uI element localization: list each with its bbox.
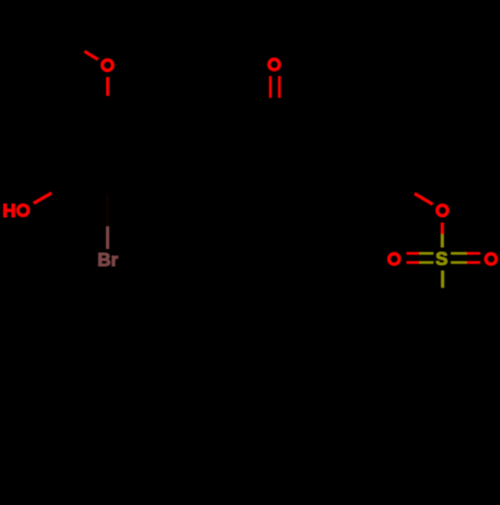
wire: O half of methoxy O-ring1 bond: [106, 77, 109, 96]
vinyl double bond inner line: [183, 124, 223, 146]
wire: carbonyl C to ring 2: [274, 130, 329, 144]
wire: O half of ester O-ring2 bond: [415, 194, 433, 205]
wire: Br half of ring1-Br bond: [106, 227, 109, 250]
label O (sulfonate ester O): [437, 205, 447, 215]
wire: ring half of O-ring1 bond: [106, 96, 109, 127]
ring 1 inner double bonds: [84, 133, 131, 184]
benzene ring 1 (left): [78, 127, 136, 194]
carbonyl carbon halves of C=O double bond: [270, 97, 279, 127]
wire: phenyl half of S-phenyl bond: [441, 288, 444, 317]
wire: S half of ester O-S bond: [441, 234, 444, 247]
svg-text:Br: Br: [98, 249, 119, 270]
svg-text:S: S: [436, 248, 448, 269]
sulfonyl left S=O double bond, S halves: [419, 253, 433, 262]
sulfonyl right S=O double bond, S halves: [451, 253, 467, 262]
wire: methyl carbon half of O-CH3 bond: [63, 39, 85, 52]
ring 3 inner double bonds: [419, 322, 467, 373]
sulfonyl right S=O double bond, O halves: [467, 253, 481, 262]
label O (sulfonyl right): [486, 254, 496, 264]
sulfonyl left S=O double bond, O halves: [406, 253, 419, 262]
wire: O half of ester O-S bond: [441, 223, 444, 235]
vinyl chain CH=CH: [137, 118, 274, 144]
wire: ring half of HO-ring1 bond: [51, 177, 78, 193]
ring 2 inner double bonds: [334, 133, 381, 184]
benzene ring 3 (bottom phenyl): [414, 316, 473, 384]
wire: S half of S-phenyl bond: [441, 271, 444, 288]
benzene ring 2 (right): [329, 127, 387, 194]
label O (methoxy): [102, 60, 112, 70]
ketone C=O double bond, O halves: [270, 76, 279, 98]
wire: ring half of Br-ring1 bond: [106, 194, 109, 227]
wire: ring 2 half of ring2-O ester bond: [387, 177, 415, 194]
svg-text:H: H: [3, 200, 16, 221]
label O (ketone): [269, 59, 279, 69]
label O (sulfonyl left): [389, 254, 399, 264]
wire: O half of HO-ring1 bond: [34, 193, 52, 203]
wire: O half of methoxy O-CH3 bond: [85, 52, 98, 60]
